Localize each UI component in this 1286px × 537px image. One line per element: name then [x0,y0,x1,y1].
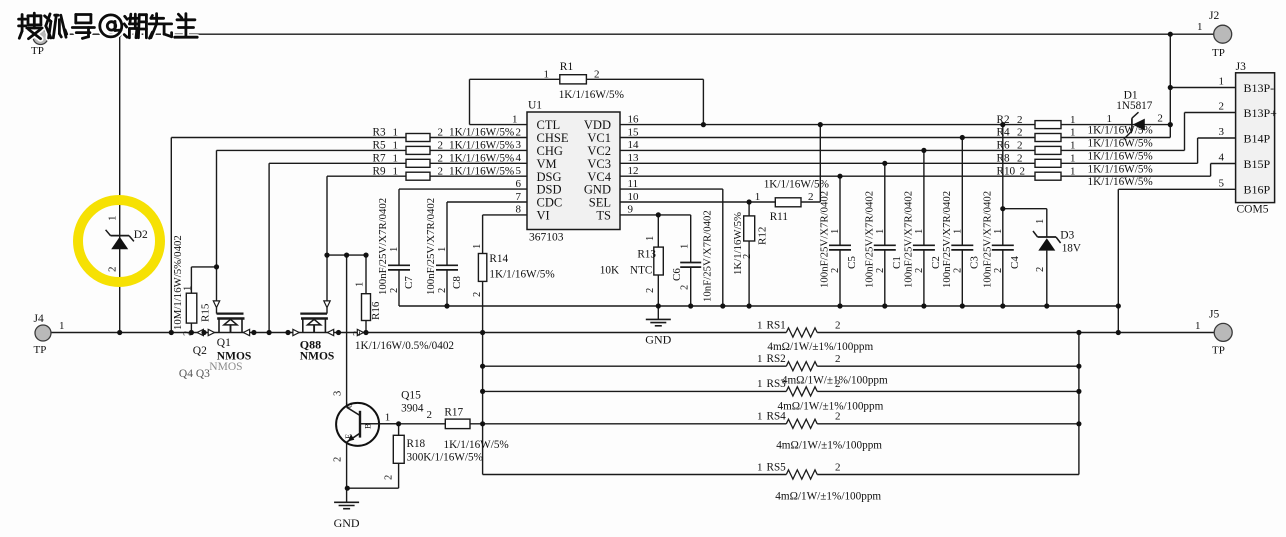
svg-text:1: 1 [1197,21,1203,33]
svg-text:J2: J2 [1209,10,1219,22]
svg-text:4mΩ/1W/±1%/100ppm: 4mΩ/1W/±1%/100ppm [775,491,881,503]
svg-text:1: 1 [183,286,194,291]
svg-text:NMOS: NMOS [300,351,335,363]
svg-text:2: 2 [438,127,444,139]
svg-text:2: 2 [1017,114,1023,126]
svg-text:1: 1 [472,244,483,249]
svg-text:1: 1 [757,378,763,390]
svg-text:RS4: RS4 [767,411,787,423]
svg-text:B: B [363,423,373,429]
svg-text:5: 5 [1219,177,1225,189]
svg-text:CHSE: CHSE [537,131,569,145]
svg-text:2: 2 [680,285,691,290]
svg-text:1: 1 [1070,140,1076,152]
svg-text:1: 1 [389,247,400,252]
svg-text:C3: C3 [968,256,980,269]
svg-text:1: 1 [1219,76,1225,88]
svg-text:R17: R17 [444,407,463,419]
svg-text:Q88: Q88 [300,338,321,352]
svg-text:2: 2 [183,331,194,336]
svg-text:1: 1 [680,244,691,249]
svg-text:RS3: RS3 [767,378,787,390]
svg-text:2: 2 [1035,267,1046,272]
svg-text:C7: C7 [403,276,415,289]
svg-text:10M/1/16W/5%/0402: 10M/1/16W/5%/0402 [172,235,184,330]
svg-text:4mΩ/1W/±1%/100ppm: 4mΩ/1W/±1%/100ppm [776,440,882,452]
svg-text:R4: R4 [997,127,1010,139]
svg-text:J5: J5 [1209,309,1219,321]
svg-text:1: 1 [875,229,886,234]
svg-text:3: 3 [1219,126,1225,138]
svg-text:12: 12 [628,165,639,177]
svg-text:1: 1 [544,68,550,80]
svg-text:VDD: VDD [584,118,611,132]
svg-text:DSD: DSD [537,183,562,197]
svg-text:1: 1 [1195,320,1201,332]
svg-text:R1: R1 [560,61,574,73]
svg-text:C5: C5 [846,256,858,269]
svg-text:14: 14 [628,139,640,151]
svg-text:2: 2 [594,68,600,80]
svg-text:SEL: SEL [589,196,611,210]
svg-text:CHG: CHG [537,144,563,158]
svg-text:1: 1 [107,216,119,222]
svg-text:100nF/25V/X7R/0402: 100nF/25V/X7R/0402 [902,191,914,288]
svg-text:2: 2 [1017,153,1023,165]
svg-text:15: 15 [628,126,640,138]
svg-text:R11: R11 [770,211,788,223]
svg-text:C4: C4 [1009,256,1021,269]
svg-text:1K/1/16W/5%: 1K/1/16W/5% [444,439,509,451]
svg-text:R12: R12 [757,227,769,245]
svg-text:1: 1 [393,153,399,165]
svg-text:4: 4 [516,152,522,164]
svg-text:1: 1 [1070,127,1076,139]
svg-text:1K/1/16W/5%: 1K/1/16W/5% [449,140,514,152]
svg-text:10K: 10K [600,265,619,277]
svg-text:RS5: RS5 [767,461,787,473]
svg-text:VC3: VC3 [587,157,611,171]
svg-text:R6: R6 [997,140,1010,152]
svg-text:VC4: VC4 [587,170,611,184]
svg-text:1: 1 [1070,114,1076,126]
svg-text:RS1: RS1 [767,319,786,331]
svg-text:R5: R5 [373,140,386,152]
svg-text:2: 2 [952,268,963,273]
svg-text:1: 1 [385,412,391,424]
svg-text:D3: D3 [1060,230,1074,242]
svg-text:100nF/25V/X7R/0402: 100nF/25V/X7R/0402 [981,191,993,288]
svg-text:GND: GND [584,183,611,197]
svg-text:VC1: VC1 [587,131,611,145]
svg-text:1: 1 [830,229,841,234]
svg-text:1K/1/16W/5%: 1K/1/16W/5% [1088,138,1153,150]
svg-text:2: 2 [914,268,925,273]
svg-text:4mΩ/1W/±1%/100ppm: 4mΩ/1W/±1%/100ppm [778,401,884,413]
svg-text:9: 9 [628,204,634,216]
svg-text:VI: VI [537,209,550,223]
svg-text:8: 8 [516,204,522,216]
svg-text:18V: 18V [1062,243,1081,255]
svg-text:10nF/25V/X7R/0402: 10nF/25V/X7R/0402 [702,210,714,302]
svg-text:1: 1 [1070,165,1076,177]
svg-text:16: 16 [628,113,640,125]
svg-text:E: E [343,434,353,439]
svg-text:U1: U1 [528,100,542,112]
svg-text:6: 6 [516,178,522,190]
svg-text:1: 1 [59,320,65,332]
svg-text:1: 1 [914,229,925,234]
svg-text:R3: R3 [373,127,386,139]
svg-text:1K/1/16W/5%: 1K/1/16W/5% [1088,150,1153,162]
svg-text:2: 2 [472,292,483,297]
svg-text:5: 5 [516,165,522,177]
svg-text:1: 1 [1070,153,1076,165]
svg-text:R16: R16 [370,301,382,320]
svg-text:Q4 Q3: Q4 Q3 [179,368,210,380]
svg-text:1K/1/16W/0.5%/0402: 1K/1/16W/0.5%/0402 [355,340,454,352]
svg-text:C: C [344,402,354,408]
svg-text:B13P-: B13P- [1244,81,1275,95]
svg-text:TP: TP [31,45,44,57]
svg-text:1K/1/16W/5%: 1K/1/16W/5% [1088,176,1153,188]
svg-text:1: 1 [952,229,963,234]
svg-text:TS: TS [596,209,611,223]
svg-text:VC2: VC2 [587,144,611,158]
svg-text:3: 3 [516,139,522,151]
svg-text:100nF/25V/X7R/0402: 100nF/25V/X7R/0402 [819,191,831,288]
svg-text:2: 2 [1219,101,1225,113]
svg-text:4mΩ/1W/±1%/100ppm: 4mΩ/1W/±1%/100ppm [767,341,873,353]
svg-text:100nF/25V/X7R/0402: 100nF/25V/X7R/0402 [863,191,875,288]
svg-text:B14P: B14P [1244,131,1271,145]
svg-text:1K/1/16W/5%: 1K/1/16W/5% [489,269,554,281]
svg-text:2: 2 [875,268,886,273]
svg-text:100nF/25V/X7R/0402: 100nF/25V/X7R/0402 [425,198,437,295]
svg-text:2: 2 [438,165,444,177]
svg-text:3: 3 [333,391,344,396]
svg-text:COM5: COM5 [1237,203,1269,215]
svg-text:2: 2 [389,288,400,293]
svg-text:C8: C8 [451,276,463,289]
svg-text:CTL: CTL [537,118,561,132]
svg-text:1: 1 [757,353,763,365]
svg-text:R13: R13 [637,249,656,261]
svg-text:Q2: Q2 [193,345,207,357]
svg-text:B16P: B16P [1244,183,1271,197]
svg-text:1: 1 [1035,219,1046,224]
svg-text:CDC: CDC [537,196,563,210]
svg-text:2: 2 [835,353,841,365]
svg-text:TP: TP [34,344,47,356]
svg-text:2: 2 [107,267,119,273]
svg-text:2: 2 [333,457,344,462]
svg-text:2: 2 [438,140,444,152]
svg-text:R10: R10 [997,165,1016,177]
svg-text:2: 2 [1020,165,1026,177]
svg-text:TP: TP [1212,47,1225,59]
svg-text:DSG: DSG [537,170,562,184]
svg-text:R18: R18 [407,438,426,450]
svg-text:2: 2 [645,288,656,293]
svg-text:1: 1 [755,191,761,203]
svg-text:1: 1 [393,140,399,152]
svg-text:VM: VM [537,157,557,171]
svg-text:RS2: RS2 [767,353,786,365]
svg-text:NTC: NTC [630,265,652,277]
svg-text:1K/1/16W/5%: 1K/1/16W/5% [449,165,514,177]
svg-text:1: 1 [993,229,1004,234]
svg-text:GND: GND [645,333,671,347]
svg-text:R2: R2 [997,114,1010,126]
svg-text:1: 1 [355,282,366,287]
svg-text:R9: R9 [373,165,386,177]
svg-text:4: 4 [1219,152,1225,164]
svg-text:2: 2 [835,319,841,331]
svg-text:1K/1/16W/5%: 1K/1/16W/5% [764,179,829,191]
svg-text:1K/1/16W/5%: 1K/1/16W/5% [449,153,514,165]
svg-text:2: 2 [384,475,395,480]
svg-text:1K/1/16W/5%: 1K/1/16W/5% [559,89,624,101]
svg-text:1: 1 [757,411,763,423]
svg-text:2: 2 [1017,140,1023,152]
svg-text:1: 1 [393,165,399,177]
svg-text:C6: C6 [671,268,683,281]
svg-text:1: 1 [757,461,763,473]
svg-text:3904: 3904 [401,403,424,415]
svg-text:13: 13 [628,152,640,164]
svg-text:R15: R15 [200,303,212,322]
svg-text:B13P+: B13P+ [1244,106,1278,120]
svg-text:11: 11 [628,178,639,190]
svg-text:R8: R8 [997,153,1010,165]
svg-text:1K/1/16W/5%: 1K/1/16W/5% [449,127,514,139]
svg-text:2: 2 [1017,127,1023,139]
svg-text:2: 2 [835,461,841,473]
svg-text:300K/1/16W/5%: 300K/1/16W/5% [407,452,483,464]
svg-text:GND: GND [334,516,360,530]
svg-text:7: 7 [516,191,522,203]
svg-text:2: 2 [438,153,444,165]
svg-text:2: 2 [830,268,841,273]
svg-text:2: 2 [437,288,448,293]
svg-text:2: 2 [742,254,753,259]
svg-text:C1: C1 [891,256,903,269]
svg-text:2: 2 [352,331,363,336]
svg-text:2: 2 [516,126,522,138]
svg-text:2: 2 [808,191,814,203]
svg-text:R14: R14 [489,253,508,265]
svg-text:Q15: Q15 [401,390,421,402]
svg-text:100nF/25V/X7R/0402: 100nF/25V/X7R/0402 [377,198,389,295]
svg-text:10: 10 [628,191,640,203]
svg-text:TP: TP [1212,345,1225,357]
svg-text:2: 2 [427,409,433,421]
svg-text:1: 1 [757,319,763,331]
svg-text:J3: J3 [1236,61,1246,73]
svg-text:1: 1 [512,113,518,125]
svg-text:1: 1 [645,236,656,241]
svg-text:2: 2 [1157,112,1163,124]
svg-text:100nF/25V/X7R/0402: 100nF/25V/X7R/0402 [941,191,953,288]
svg-text:D2: D2 [134,229,148,241]
svg-text:1: 1 [393,127,399,139]
svg-text:2: 2 [993,268,1004,273]
svg-text:J4: J4 [34,313,44,325]
svg-text:2: 2 [835,378,841,390]
svg-text:B15P: B15P [1244,157,1271,171]
svg-text:1: 1 [1107,113,1113,125]
svg-text:NMOS: NMOS [209,361,242,373]
svg-text:1: 1 [437,247,448,252]
svg-text:1K/1/16W/5%: 1K/1/16W/5% [732,212,744,275]
svg-text:1N5817: 1N5817 [1116,100,1152,112]
svg-text:2: 2 [835,411,841,423]
svg-text:1K/1/16W/5%: 1K/1/16W/5% [1088,163,1153,175]
svg-text:367103: 367103 [529,232,564,244]
svg-text:R7: R7 [373,153,386,165]
svg-text:1K/1/16W/5%: 1K/1/16W/5% [1088,125,1153,137]
svg-text:Q1: Q1 [217,337,231,349]
